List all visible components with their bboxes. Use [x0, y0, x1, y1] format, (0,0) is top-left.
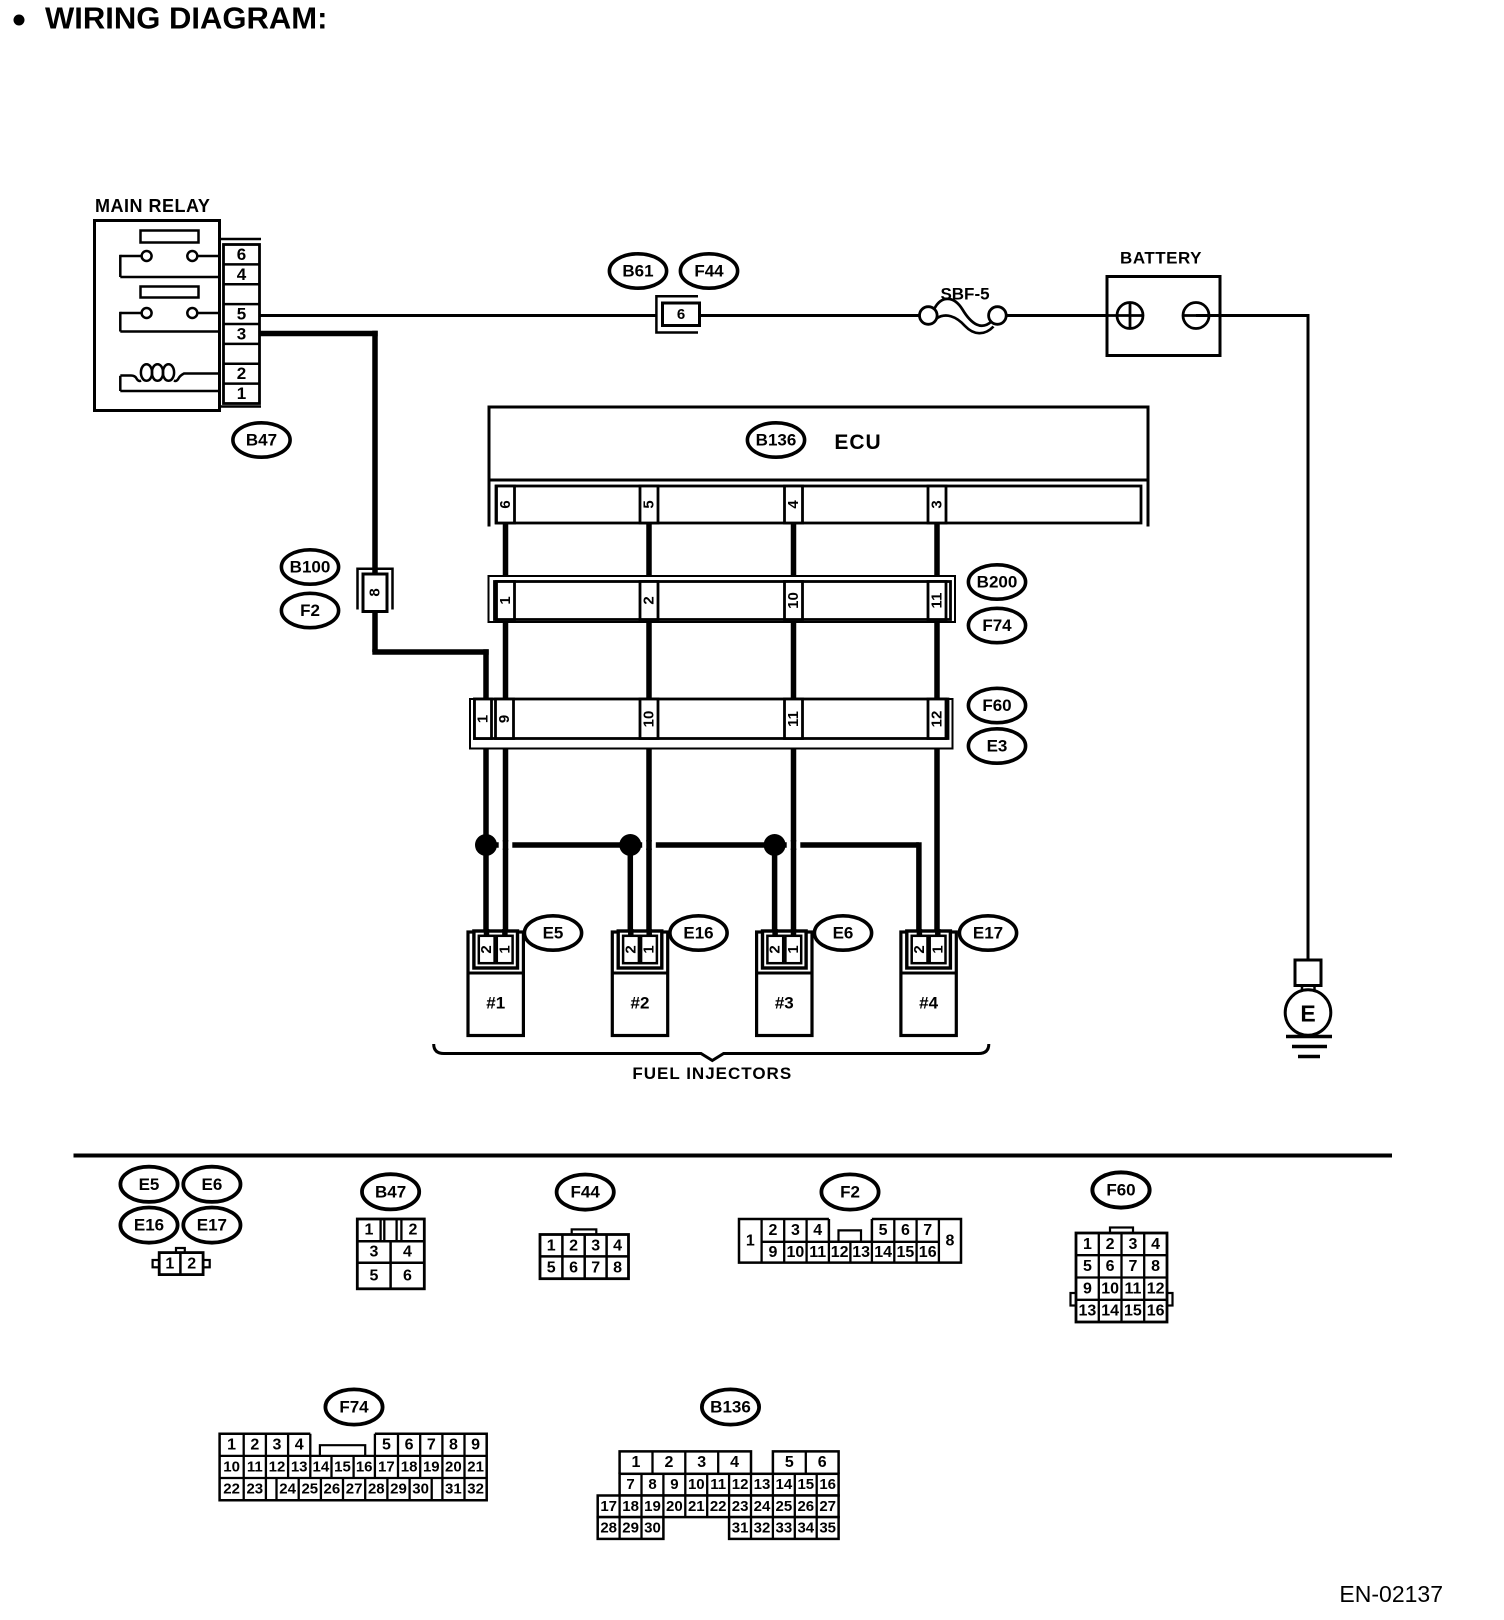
- wire battery negative to ground drop: [1196, 314, 1310, 317]
- svg-text:14: 14: [874, 1244, 892, 1261]
- legend oval F74: [325, 1389, 382, 1424]
- ECU side walls: [488, 480, 491, 527]
- F2 pinout: [739, 1219, 961, 1263]
- svg-text:F2: F2: [300, 601, 320, 620]
- wire relay pin3 to B100/F2 connector (thick): [260, 331, 378, 337]
- connector B100/F2 ovals: [281, 550, 338, 584]
- svg-text:7: 7: [1128, 1258, 1137, 1275]
- svg-text:1: 1: [785, 945, 802, 953]
- svg-text:BATTERY: BATTERY: [1120, 249, 1202, 268]
- svg-text:5: 5: [370, 1267, 379, 1284]
- svg-text:20: 20: [445, 1458, 462, 1475]
- fuel injector #3 body: [757, 932, 812, 1036]
- svg-text:E17: E17: [973, 924, 1003, 943]
- svg-text:17: 17: [378, 1458, 395, 1475]
- svg-text:4: 4: [813, 1222, 822, 1239]
- svg-text:24: 24: [754, 1498, 771, 1515]
- svg-text:#1: #1: [486, 994, 505, 1013]
- svg-text:F74: F74: [339, 1398, 369, 1417]
- svg-text:2: 2: [569, 1237, 578, 1254]
- svg-text:7: 7: [427, 1436, 436, 1453]
- svg-text:32: 32: [467, 1481, 484, 1498]
- injector #2 divider: [612, 972, 667, 975]
- svg-text:10: 10: [785, 592, 802, 609]
- svg-text:1: 1: [165, 1255, 174, 1272]
- connector designator oval B47: [233, 423, 290, 457]
- fuel injector #4 connector: [907, 931, 951, 968]
- svg-text:31: 31: [445, 1481, 462, 1498]
- svg-text:18: 18: [401, 1458, 418, 1475]
- svg-text:25: 25: [301, 1481, 318, 1498]
- F44 pinout grid: [572, 1229, 597, 1234]
- legend oval F2: [821, 1174, 878, 1209]
- svg-text:15: 15: [797, 1476, 814, 1493]
- svg-text:9: 9: [670, 1476, 678, 1493]
- fuel injector #2 connector: [618, 931, 662, 968]
- svg-text:2: 2: [187, 1255, 196, 1272]
- svg-text:27: 27: [346, 1481, 363, 1498]
- svg-text:21: 21: [467, 1458, 484, 1475]
- svg-text:16: 16: [819, 1476, 836, 1493]
- svg-text:1: 1: [365, 1222, 374, 1239]
- wire crossing (no connection) at x=649: [646, 840, 652, 850]
- svg-text:26: 26: [324, 1481, 341, 1498]
- svg-text:4: 4: [785, 500, 802, 509]
- ECU connector pin 3 cell: [928, 486, 946, 523]
- svg-text:6: 6: [901, 1222, 910, 1239]
- svg-text:24: 24: [279, 1481, 296, 1498]
- B200/F74 pin 1 cell: [497, 582, 515, 620]
- svg-text:13: 13: [754, 1476, 771, 1493]
- fuel injectors brace: [434, 1044, 989, 1061]
- svg-text:F60: F60: [982, 696, 1011, 715]
- inline connector 8 bracket: [358, 569, 393, 610]
- svg-text:SBF-5: SBF-5: [940, 285, 989, 304]
- connector designator ovals F60 / E3: [968, 688, 1025, 722]
- connector row F60/E3 outer: [470, 699, 953, 749]
- svg-text:10: 10: [688, 1476, 705, 1493]
- inline connector 8 inner box: [363, 574, 387, 612]
- svg-text:E: E: [1300, 1001, 1315, 1027]
- F60/E3 pin 12 cell: [928, 699, 946, 739]
- svg-text:3: 3: [791, 1222, 800, 1239]
- svg-text:16: 16: [919, 1244, 937, 1261]
- svg-text:11: 11: [1124, 1280, 1141, 1297]
- svg-text:7: 7: [626, 1476, 634, 1493]
- svg-text:1: 1: [227, 1436, 236, 1453]
- svg-text:9: 9: [768, 1244, 777, 1261]
- svg-text:14: 14: [1101, 1303, 1119, 1320]
- svg-text:35: 35: [819, 1519, 836, 1536]
- legend oval B136: [702, 1389, 759, 1424]
- bus wire injector pin 2 net: [486, 842, 919, 848]
- fuel injector #4 body: [901, 932, 956, 1036]
- wire relay contact1 to pin 4: [120, 255, 141, 258]
- svg-text:16: 16: [1147, 1303, 1165, 1320]
- wire ECU pin 6 down (injector #1 pin 1 net): [503, 523, 509, 932]
- wire relay contact2 to pin 3: [120, 312, 141, 315]
- F60/E3 pin 1 cell: [475, 699, 492, 739]
- svg-text:1: 1: [497, 596, 514, 604]
- svg-text:11: 11: [929, 593, 946, 609]
- svg-text:11: 11: [710, 1476, 726, 1493]
- relay K1 main relay box: [95, 221, 220, 411]
- F60/E3 pin 10 cell: [640, 699, 658, 739]
- svg-text:4: 4: [237, 265, 247, 284]
- battery box: [1107, 277, 1220, 356]
- title bullet: [14, 15, 25, 26]
- wire relay contact1 to pin 6: [197, 255, 219, 258]
- svg-text:6: 6: [405, 1436, 414, 1453]
- svg-text:10: 10: [1101, 1280, 1119, 1297]
- svg-text:B136: B136: [756, 431, 797, 450]
- svg-text:B61: B61: [622, 262, 653, 281]
- svg-text:E16: E16: [134, 1216, 164, 1235]
- svg-text:B47: B47: [375, 1182, 406, 1201]
- svg-text:33: 33: [776, 1519, 793, 1536]
- svg-text:B47: B47: [246, 431, 277, 450]
- svg-text:1: 1: [632, 1454, 641, 1471]
- ECU connector pin 6 cell: [497, 486, 515, 523]
- svg-text:20: 20: [666, 1498, 683, 1515]
- fuse SBF-5 symbol: [920, 307, 938, 325]
- svg-text:2: 2: [250, 1436, 259, 1453]
- svg-text:12: 12: [269, 1458, 286, 1475]
- svg-text:E5: E5: [543, 924, 564, 943]
- svg-text:2: 2: [408, 1222, 417, 1239]
- svg-text:F60: F60: [1106, 1181, 1135, 1200]
- svg-text:11: 11: [809, 1244, 826, 1261]
- svg-text:6: 6: [1106, 1258, 1115, 1275]
- wire B100 branch down to F60 pin 1 / injector #1 pin 2: [483, 649, 489, 931]
- B47 pinout grid: [357, 1219, 424, 1289]
- svg-text:22: 22: [223, 1481, 240, 1498]
- wire ECU pin 4 down (injector #3 pin 1 net): [791, 523, 797, 932]
- svg-text:8: 8: [613, 1259, 622, 1276]
- svg-text:8: 8: [449, 1436, 458, 1453]
- svg-text:2: 2: [478, 945, 495, 953]
- battery positive terminal: [1107, 314, 1143, 317]
- fuel injector #3 connector: [763, 931, 807, 968]
- svg-text:9: 9: [471, 1436, 480, 1453]
- wire crossing (no connection) at x=793.5: [791, 840, 797, 850]
- svg-text:10: 10: [223, 1458, 240, 1475]
- wire ECU pin 5 down (injector #2 pin 1 net): [646, 523, 652, 932]
- svg-text:E6: E6: [833, 924, 854, 943]
- svg-text:2: 2: [237, 364, 246, 383]
- svg-text:EN-02137: EN-02137: [1339, 1581, 1443, 1607]
- svg-text:B136: B136: [710, 1398, 751, 1417]
- svg-text:5: 5: [382, 1436, 391, 1453]
- injector #2 wire stubs into connector: [628, 929, 634, 937]
- svg-text:19: 19: [644, 1498, 661, 1515]
- svg-text:6: 6: [403, 1267, 412, 1284]
- svg-text:13: 13: [852, 1244, 870, 1261]
- svg-text:1: 1: [475, 715, 492, 723]
- svg-text:3: 3: [697, 1454, 706, 1471]
- svg-text:28: 28: [600, 1519, 617, 1536]
- relay contact points row 1: [142, 251, 152, 261]
- svg-text:F2: F2: [840, 1183, 860, 1202]
- svg-text:7: 7: [591, 1259, 600, 1276]
- junction dot 3: [764, 834, 786, 856]
- connector row B200/F74 outer: [489, 576, 956, 622]
- wire crossing (no connection) at x=505.5: [503, 840, 509, 850]
- injector #4 divider: [901, 972, 956, 975]
- ECU connector pin 4 cell: [785, 486, 803, 523]
- svg-text:9: 9: [1083, 1280, 1092, 1297]
- svg-text:B100: B100: [290, 558, 331, 577]
- svg-text:E17: E17: [197, 1216, 227, 1235]
- svg-text:8: 8: [648, 1476, 656, 1493]
- fuel injector #1 connector: [474, 931, 518, 968]
- svg-text:1: 1: [929, 945, 946, 953]
- svg-text:F44: F44: [571, 1183, 601, 1202]
- B200/F74 pin 10 cell: [785, 582, 803, 620]
- connector designator ovals B200 / F74: [968, 565, 1025, 599]
- B200/F74 pin 2 cell: [640, 582, 658, 620]
- ground connector box: [1295, 960, 1321, 986]
- svg-text:28: 28: [368, 1481, 385, 1498]
- svg-text:8: 8: [946, 1232, 955, 1249]
- svg-text:3: 3: [273, 1436, 282, 1453]
- wire relay pin5 to connector 6: [260, 314, 658, 317]
- svg-text:2: 2: [622, 945, 639, 953]
- svg-text:23: 23: [732, 1498, 749, 1515]
- svg-text:1: 1: [496, 945, 513, 953]
- inline connector bracket: [656, 296, 698, 332]
- connector row F60/E3 inner: [475, 699, 949, 739]
- svg-text:2: 2: [911, 945, 928, 953]
- svg-text:13: 13: [1079, 1303, 1097, 1320]
- svg-text:2: 2: [641, 596, 658, 604]
- svg-text:5: 5: [785, 1454, 794, 1471]
- svg-text:26: 26: [797, 1498, 814, 1515]
- svg-text:9: 9: [496, 715, 513, 723]
- svg-text:6: 6: [677, 306, 685, 323]
- svg-text:15: 15: [334, 1458, 351, 1475]
- svg-text:ECU: ECU: [834, 431, 881, 454]
- svg-text:29: 29: [622, 1519, 639, 1536]
- svg-text:34: 34: [797, 1519, 814, 1536]
- svg-text:12: 12: [929, 711, 946, 728]
- injector #1 divider: [468, 972, 523, 975]
- svg-text:18: 18: [622, 1498, 639, 1515]
- svg-text:3: 3: [370, 1244, 379, 1261]
- svg-text:4: 4: [295, 1436, 304, 1453]
- svg-text:2: 2: [768, 1222, 777, 1239]
- svg-text:15: 15: [1124, 1303, 1142, 1320]
- svg-text:19: 19: [423, 1458, 440, 1475]
- svg-text:2: 2: [664, 1454, 673, 1471]
- svg-text:27: 27: [819, 1498, 836, 1515]
- svg-text:12: 12: [831, 1244, 849, 1261]
- svg-text:23: 23: [246, 1481, 263, 1498]
- svg-text:14: 14: [313, 1458, 330, 1475]
- relay contact points row 2: [142, 308, 152, 318]
- svg-text:MAIN RELAY: MAIN RELAY: [95, 196, 210, 216]
- svg-text:3: 3: [929, 500, 946, 508]
- injector #3 wire stubs into connector: [772, 929, 778, 937]
- svg-text:#3: #3: [775, 994, 794, 1013]
- stub to injector #3 pin 2: [772, 845, 778, 932]
- svg-text:8: 8: [1151, 1258, 1160, 1275]
- wire battery to ground E (vertical): [1307, 314, 1310, 960]
- svg-text:B200: B200: [977, 573, 1018, 592]
- svg-text:21: 21: [688, 1498, 705, 1515]
- fuel injector #1 body: [468, 932, 523, 1036]
- svg-text:5: 5: [1083, 1258, 1092, 1275]
- connector row B200/F74 inner: [495, 582, 951, 620]
- svg-text:4: 4: [403, 1244, 412, 1261]
- svg-text:5: 5: [641, 500, 658, 508]
- wire connector 6 to fuse SBF-5: [698, 314, 920, 317]
- svg-text:30: 30: [644, 1519, 661, 1536]
- svg-text:4: 4: [730, 1454, 739, 1471]
- svg-text:2: 2: [1106, 1236, 1115, 1253]
- svg-text:1: 1: [237, 384, 246, 403]
- svg-text:E5: E5: [139, 1175, 160, 1194]
- svg-text:6: 6: [569, 1259, 578, 1276]
- svg-text:8: 8: [367, 588, 384, 596]
- connector designator ovals E5 E16 E6 E17: [524, 916, 581, 950]
- B200/F74 pin 11 cell: [928, 582, 946, 620]
- svg-text:6: 6: [497, 500, 514, 508]
- svg-text:31: 31: [732, 1519, 749, 1536]
- ground hatching: [1286, 1035, 1332, 1038]
- B136 pinout: [620, 1451, 751, 1473]
- svg-text:25: 25: [776, 1498, 793, 1515]
- ECU connector pin 5 cell: [640, 486, 658, 523]
- injector #1 wire stubs into connector: [484, 929, 490, 937]
- injector #3 divider: [757, 972, 812, 975]
- svg-text:15: 15: [897, 1244, 915, 1261]
- svg-text:E6: E6: [202, 1175, 223, 1194]
- connector B61/F44 ovals: [609, 254, 666, 288]
- svg-text:3: 3: [591, 1237, 600, 1254]
- svg-text:14: 14: [776, 1476, 793, 1493]
- svg-text:6: 6: [818, 1454, 827, 1471]
- legend oval F60: [1092, 1172, 1149, 1207]
- svg-text:16: 16: [356, 1458, 373, 1475]
- injector #4 wire stubs into connector: [917, 929, 923, 937]
- injector connector pinout (2 pin): [176, 1248, 185, 1253]
- fuel injector #2 body: [612, 932, 667, 1036]
- svg-text:29: 29: [390, 1481, 407, 1498]
- svg-text:4: 4: [1151, 1236, 1160, 1253]
- svg-text:10: 10: [787, 1244, 805, 1261]
- svg-text:7: 7: [923, 1222, 932, 1239]
- legend ovals E5 E6 E16 E17: [120, 1167, 177, 1202]
- svg-text:5: 5: [879, 1222, 888, 1239]
- stub to injector #2 pin 2: [628, 845, 634, 932]
- svg-text:11: 11: [785, 711, 802, 727]
- legend oval F44: [557, 1175, 614, 1210]
- ECU box B136: [489, 407, 1148, 480]
- wire relay coil to pin 1: [119, 376, 122, 391]
- svg-text:E3: E3: [987, 737, 1008, 756]
- svg-text:WIRING DIAGRAM:: WIRING DIAGRAM:: [45, 1, 327, 36]
- svg-text:13: 13: [291, 1458, 308, 1475]
- relay contact bar 2: [141, 287, 199, 298]
- ground circle E: [1285, 990, 1331, 1036]
- F60/E3 pin 9 cell: [496, 699, 514, 739]
- F60/E3 pin 11 cell: [785, 699, 803, 739]
- separator line: [74, 1154, 1393, 1158]
- inline connector pin 6 box: [663, 303, 700, 326]
- svg-text:5: 5: [547, 1259, 556, 1276]
- svg-text:1: 1: [547, 1237, 556, 1254]
- svg-text:12: 12: [732, 1476, 749, 1493]
- svg-text:2: 2: [767, 945, 784, 953]
- battery negative terminal: [1183, 303, 1209, 329]
- svg-text:30: 30: [412, 1481, 429, 1498]
- svg-text:32: 32: [754, 1519, 771, 1536]
- svg-text:12: 12: [1147, 1280, 1165, 1297]
- connector B47 outer bracket: [220, 238, 262, 241]
- svg-text:#2: #2: [631, 994, 650, 1013]
- svg-text:1: 1: [1083, 1236, 1092, 1253]
- junction dot 1: [475, 834, 497, 856]
- relay coil: [120, 376, 141, 381]
- ECU connector row: [496, 486, 1141, 523]
- ECU designator oval B136: [747, 423, 804, 457]
- svg-text:22: 22: [710, 1498, 727, 1515]
- svg-text:E16: E16: [683, 924, 713, 943]
- svg-text:#4: #4: [919, 994, 938, 1013]
- legend oval B47: [362, 1174, 419, 1209]
- svg-text:F74: F74: [982, 616, 1012, 635]
- connector B47 pin column: [224, 245, 260, 404]
- svg-text:10: 10: [641, 711, 658, 728]
- ground neck: [1301, 986, 1304, 992]
- wire fuse to battery positive: [1006, 314, 1118, 317]
- junction dot 2: [619, 834, 641, 856]
- svg-text:6: 6: [237, 245, 246, 264]
- svg-text:17: 17: [600, 1498, 617, 1515]
- svg-text:11: 11: [247, 1458, 263, 1475]
- relay contact bar 1: [141, 231, 199, 243]
- svg-text:FUEL INJECTORS: FUEL INJECTORS: [632, 1064, 792, 1083]
- svg-text:4: 4: [613, 1237, 622, 1254]
- svg-text:1: 1: [746, 1232, 755, 1249]
- svg-text:1: 1: [641, 945, 658, 953]
- wire relay contact2 to pin 5: [197, 312, 219, 315]
- wire ECU pin 3 down (injector #4 pin 1 net): [934, 523, 940, 932]
- svg-text:5: 5: [237, 305, 246, 324]
- svg-text:F44: F44: [694, 262, 724, 281]
- F60 pinout grid: [1110, 1228, 1133, 1234]
- svg-text:3: 3: [1128, 1236, 1137, 1253]
- F74 pinout: [220, 1434, 487, 1501]
- svg-text:3: 3: [237, 324, 246, 343]
